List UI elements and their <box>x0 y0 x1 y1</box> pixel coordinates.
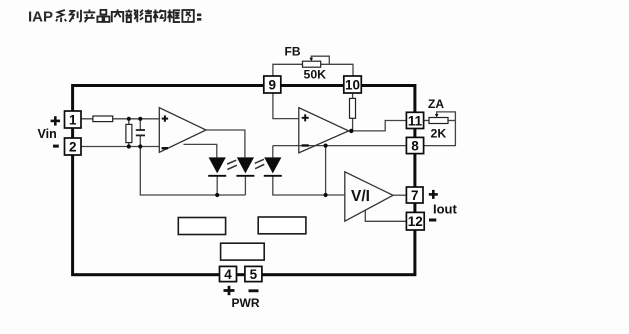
svg-text:ZA: ZA <box>428 97 444 111</box>
wire ZA pot right end <box>448 120 455 122</box>
node dot minus/V-I net junction top <box>324 144 328 148</box>
potentiometer FB 50K body <box>303 61 321 67</box>
svg-text:10: 10 <box>345 77 360 92</box>
char 列 <box>69 10 81 22</box>
wire FB pot to pin10 <box>321 64 353 76</box>
svg-text:50K: 50K <box>304 67 327 81</box>
op-amp U2 <box>299 108 349 153</box>
label + (Iout plus) <box>429 190 438 199</box>
title "IAP" latin part <box>28 9 53 26</box>
char 图 <box>182 10 193 22</box>
U2 plus marker <box>302 114 309 121</box>
wire link minus net to V/I input net <box>325 146 327 195</box>
svg-text:12: 12 <box>408 214 423 229</box>
wire diode D3 cathode down to V/I input net <box>273 176 345 195</box>
wire U1 feedback tee to diode D1 anode <box>184 144 217 157</box>
wire V/I output to pin 7 <box>393 194 406 196</box>
svg-text:11: 11 <box>408 113 423 128</box>
title colon <box>197 14 201 21</box>
diode D1 <box>208 157 226 175</box>
ZA wiper arrowhead <box>435 114 439 118</box>
node dot minus/V-I net junction bottom <box>324 193 328 197</box>
node dot R2 top junction <box>127 117 131 121</box>
svg-text:9: 9 <box>269 77 277 92</box>
title CJK glyphs (hand drawn) <box>56 9 194 22</box>
char 内 <box>112 9 123 22</box>
char 构 <box>153 10 165 23</box>
pin 2 <box>65 138 82 155</box>
pin 10 <box>344 76 362 93</box>
wire diode D1 cathode down <box>216 176 218 195</box>
potentiometer ZA 2K body <box>429 118 448 124</box>
pin 9 <box>264 76 281 93</box>
wire U2 output to pin 11 <box>349 121 407 131</box>
svg-text:2K: 2K <box>431 127 447 141</box>
svg-text:IAP: IAP <box>28 9 53 26</box>
label - (Iout minus) <box>429 219 436 222</box>
wire pin1 to op-amp U1 + input <box>81 118 159 120</box>
node dot diode D1 cathode junction <box>215 193 219 197</box>
svg-text:PWR: PWR <box>232 296 260 310</box>
svg-text:V/I: V/I <box>351 188 370 205</box>
char 系 <box>56 10 66 22</box>
pin 4 <box>220 266 237 282</box>
svg-text:1: 1 <box>69 112 77 127</box>
resistor R3 (pin10 to U2 output) <box>350 98 356 118</box>
resistor R1 (series input) <box>93 116 113 122</box>
U1 plus marker <box>162 115 168 121</box>
char 产 <box>84 10 96 23</box>
svg-text:7: 7 <box>411 188 419 203</box>
wire pin12 to V/I lower edge <box>365 210 406 222</box>
wire pin2 to op-amp U1 - input <box>81 146 159 148</box>
node dot R2 bottom junction <box>127 144 131 148</box>
label - (PWR minus) <box>249 289 259 292</box>
wire pin9 up to FB pot <box>273 64 303 76</box>
svg-text:8: 8 <box>411 138 419 153</box>
diode D3 <box>264 157 282 175</box>
node dot U2 output <box>349 129 353 133</box>
node dot C1 top junction <box>138 117 142 121</box>
wire U1 output to diode D2 anode <box>206 130 245 157</box>
wire diode D3 anode up to minus net <box>272 146 274 158</box>
svg-text:FB: FB <box>285 44 301 58</box>
node dot C1 bottom junction <box>138 144 142 148</box>
char 框 <box>168 10 181 23</box>
char 结 <box>140 10 152 22</box>
U2 minus marker <box>302 144 309 146</box>
wire diode D2 cathode down <box>244 176 246 195</box>
U1 minus marker <box>162 147 168 149</box>
svg-text:Iout: Iout <box>433 202 457 217</box>
label + (Vin plus) <box>51 116 60 125</box>
optical coupling slashes 2 <box>255 159 264 168</box>
wire capacitor branch <box>139 119 141 130</box>
wire feedback down from C1 node to bottom net <box>140 147 245 196</box>
op-amp U1 <box>159 108 206 153</box>
wire pin10 down to R3 <box>352 93 354 98</box>
wire FB pot wiper loop <box>311 56 329 64</box>
optical coupling slashes 1 <box>227 160 237 169</box>
svg-text:4: 4 <box>224 267 232 282</box>
pin 7 <box>406 187 423 203</box>
label + (PWR plus) <box>224 286 235 295</box>
char 部 <box>125 10 137 23</box>
pin 8 <box>406 137 423 153</box>
FB wiper arrowhead <box>310 58 314 62</box>
wire pin9 down to op-amp U2 + input <box>273 93 299 119</box>
wire R3 down to U2 output node <box>352 118 354 131</box>
label - (Vin minus) <box>53 145 59 148</box>
pin 12 <box>406 212 424 230</box>
resistor R2 (vertical shunt) <box>126 124 132 142</box>
unlabeled box C <box>221 243 265 260</box>
svg-text:2: 2 <box>69 139 77 154</box>
char 品 <box>97 10 109 22</box>
wire minus net to pin 8 <box>273 145 407 147</box>
main border box <box>73 86 415 275</box>
pin 11 <box>406 112 423 128</box>
pin 5 <box>245 266 262 282</box>
pin 1 <box>65 111 82 128</box>
wire pin11 to ZA pot <box>424 120 429 122</box>
unlabeled box B <box>258 217 306 234</box>
wire ZA pot wiper loop down to pin 8 <box>424 112 456 146</box>
unlabeled box A <box>178 218 225 235</box>
svg-text:5: 5 <box>250 267 258 282</box>
V/I converter block <box>345 172 393 221</box>
svg-text:Vin: Vin <box>38 127 57 141</box>
wire R2 vertical branch <box>128 119 130 147</box>
capacitor C1 <box>136 130 145 135</box>
diode D2 <box>236 157 254 175</box>
